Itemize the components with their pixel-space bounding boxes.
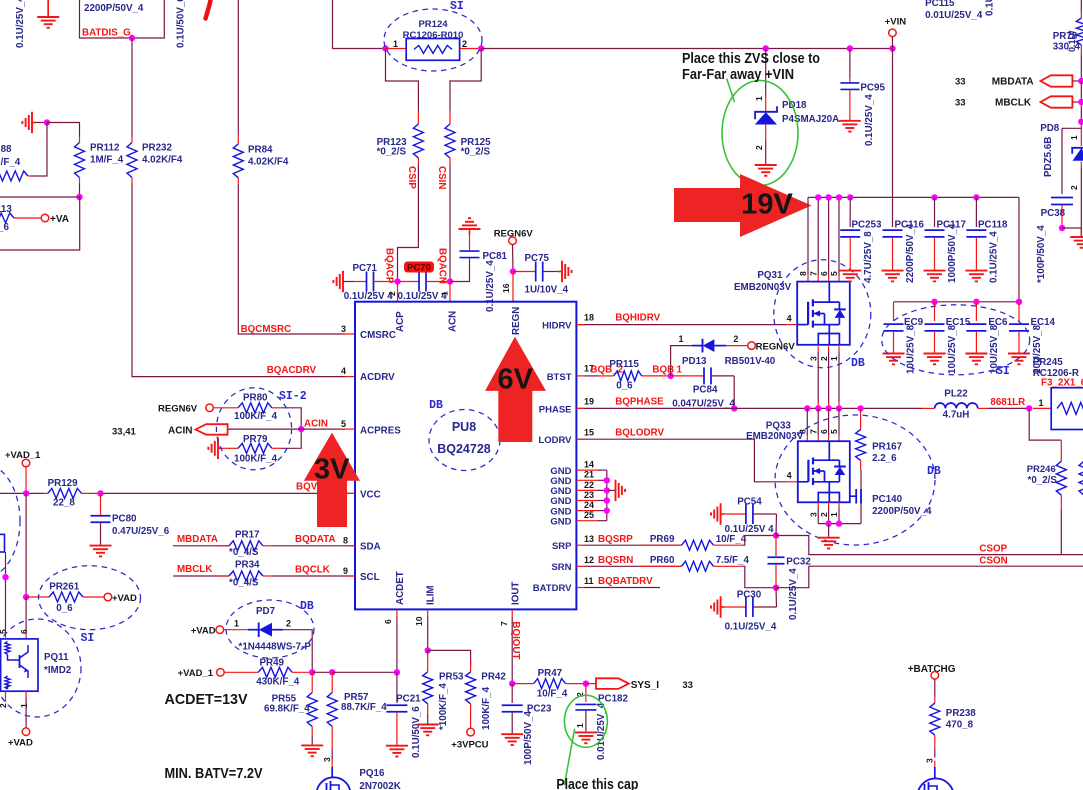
terminal arrow MBDATA [1041,75,1073,86]
svg-text:BQCMSRC: BQCMSRC [241,324,292,335]
svg-text:GND: GND [550,516,571,527]
svg-text:+VAD: +VAD [8,738,33,749]
wire MBDATA [173,545,229,547]
node junction PC84-PHASE [731,405,737,411]
wire PR80 to ACIN node [281,408,301,429]
svg-text:REGN6V: REGN6V [494,229,534,240]
svg-text:BATDIS_G: BATDIS_G [82,28,131,39]
svg-text:25: 25 [584,510,594,520]
svg-text:PC32: PC32 [786,557,811,568]
svg-text:8: 8 [343,536,348,546]
wire PR124 pin1 to CSIP [386,49,419,112]
svg-text:F3_2X1_6: F3_2X1_6 [1041,378,1083,389]
svg-text:10: 10 [414,616,424,626]
svg-text:5: 5 [341,419,346,429]
svg-text:MIN. BATV=7.2V: MIN. BATV=7.2V [165,765,263,782]
resistor PR60 [640,565,682,567]
wire PQ33 source bus [818,523,861,525]
wire ILIM pin10 [427,609,429,617]
svg-text:4.7U/25V_8: 4.7U/25V_8 [863,231,874,283]
svg-text:0.1U/25V_4: 0.1U/25V_4 [989,231,1000,283]
svg-text:BQCLK: BQCLK [295,565,330,576]
svg-text:BATDRV: BATDRV [533,583,572,594]
dashed ellipse around PR261 [39,566,141,630]
resistor PR112 [79,137,81,143]
capacitor PC30 [721,606,725,608]
svg-text:3: 3 [341,324,346,334]
svg-text:*0_2/S: *0_2/S [377,147,407,158]
svg-text:+VAD: +VAD [191,626,216,637]
svg-text:2.2_6: 2.2_6 [872,453,897,464]
dashed ellipse SI around PR124 [384,9,482,71]
wire ACDET pin6 [396,609,398,617]
svg-text:6: 6 [819,429,829,434]
svg-text:1M/F_4: 1M/F_4 [0,157,21,168]
svg-text:PQ31: PQ31 [757,270,783,281]
node junction PR55 [309,669,315,675]
node junction BQACP [394,278,400,284]
svg-text:0_6: 0_6 [56,603,73,614]
wire ILIM to PR42 [428,650,471,666]
capacitor PC54 [721,513,725,515]
svg-text:PDZ5.6B: PDZ5.6B [1043,137,1054,177]
svg-text:PHASE: PHASE [539,404,572,415]
ground PC21 [396,745,398,746]
svg-text:HIDRV: HIDRV [542,321,572,332]
wire BQPHASE pin19 [576,407,922,409]
capacitor PC253 [847,194,853,200]
svg-text:ACN: ACN [448,311,459,332]
svg-text:0.1U: 0.1U [985,0,996,16]
dashed ellipse DB around PU8 [429,410,500,471]
dashed ellipse DB around PQ31 [774,260,871,368]
capacitor PC38 [1062,127,1081,129]
svg-text:33: 33 [955,98,966,109]
svg-text:EMB20N03V: EMB20N03V [734,282,792,293]
svg-text:1: 1 [393,39,398,49]
svg-text:4.7uH: 4.7uH [943,410,970,421]
node junction SYS_I [583,680,589,686]
wire PR112 to box [79,184,81,198]
svg-text:2: 2 [819,512,829,517]
dashed ellipse around PD7 [226,600,314,658]
capacitor EC15 [934,302,936,321]
resistor PR80 [213,407,238,409]
svg-text:MBCLK: MBCLK [995,98,1032,109]
node junction REGN [510,268,516,274]
svg-text:1: 1 [575,723,585,728]
capacitor EC6 [975,302,977,321]
svg-text:9: 9 [343,566,348,576]
green ellipse around PC182 [564,695,607,747]
zener diode PD8 PDZ5.6B [1080,125,1082,146]
svg-text:BQ24728: BQ24728 [437,442,491,456]
svg-text:3: 3 [322,757,332,762]
svg-text:BQBATDRV: BQBATDRV [598,576,653,587]
node junction PR261 [23,594,29,600]
svg-text:PR49: PR49 [260,658,285,669]
IC U-PU8 BQ24728 body [355,302,576,610]
svg-text:23: 23 [584,490,594,500]
svg-text:Place this ZVS close to: Place this ZVS close to [682,51,820,67]
svg-text:1: 1 [679,334,684,344]
svg-text:PQ16: PQ16 [359,768,385,779]
terminal arrow MBCLK [1041,96,1073,107]
svg-text:CSIN: CSIN [436,166,447,189]
resistor PR123 [417,111,419,124]
node junction BQB_1 [667,373,673,379]
svg-text:6: 6 [819,271,829,276]
node junction PC80 [97,490,103,496]
svg-text:BQSRN: BQSRN [598,555,633,566]
wire BQLODRV pin15 [576,439,786,482]
svg-text:1000P/50V_4: 1000P/50V_4 [947,223,958,283]
PQ33 source pins [817,502,819,508]
wire BQSRP pin13 [576,544,584,546]
svg-text:VCC: VCC [360,490,381,501]
svg-text:REGN: REGN [511,307,522,335]
svg-text:Far-Far away +VIN: Far-Far away +VIN [682,67,794,83]
svg-text:PR80: PR80 [243,393,268,404]
capacitor PC116 [892,197,894,227]
resistor PR88 [0,171,28,181]
red arrow 3V [304,433,360,527]
svg-text:PC115: PC115 [925,0,955,9]
wire ACP into IC [397,282,399,302]
wire BQBATDRV pin11 [576,587,584,589]
svg-text:MBDATA: MBDATA [992,77,1034,88]
svg-text:13: 13 [584,534,594,544]
IC GND pins bracket [576,469,598,471]
resistor PR245 RC1206 box [1033,407,1051,409]
wire +VAD_1 down [25,493,27,597]
ground PR55 [311,744,313,745]
svg-text:2: 2 [387,291,397,296]
dashed ellipse left edge [0,464,20,578]
svg-text:22_8: 22_8 [53,498,75,509]
PQ31 drain stubs [807,197,809,275]
svg-text:PR129: PR129 [48,478,79,489]
svg-text:5: 5 [829,429,839,434]
svg-text:3: 3 [808,356,818,361]
node junction PC95 [847,45,853,51]
wire to ACDET node [332,671,397,673]
wire PR17 to SDA [263,545,271,547]
svg-text:4: 4 [787,314,792,324]
svg-text:_6: _6 [0,222,9,233]
svg-text:0.1U/25V_4: 0.1U/25V_4 [788,568,799,620]
node junction PR245 [1026,405,1032,411]
ground top-left [47,0,49,17]
svg-text:*0_2/S: *0_2/S [461,147,491,158]
wire +VAD_1 rail [0,492,44,494]
green ellipse around PD18 [722,81,798,186]
svg-text:PC84: PC84 [693,385,718,396]
svg-text:BTST: BTST [547,372,572,383]
wire into PQ11 pin5 [5,552,7,633]
svg-text:2: 2 [286,619,291,629]
svg-text:PR167: PR167 [872,442,903,453]
capacitor PC23 [511,684,513,703]
svg-text:3: 3 [808,512,818,517]
svg-text:MBDATA: MBDATA [177,534,218,545]
wire ACN into IC [449,282,451,302]
red arrow 19V [674,174,812,237]
wire BATDIS_G to PR232 [131,38,133,137]
svg-text:10/F_4: 10/F_4 [716,534,747,545]
resistor PR78 [1080,0,1082,12]
wire to PR112 [47,123,80,137]
terminal +3VPCU [467,728,475,736]
transistor PQ31 EMB20N03V [797,282,850,345]
svg-text:*1N4448WS-7-P: *1N4448WS-7-P [239,642,312,653]
svg-text:7: 7 [499,621,509,626]
ground PC182 [585,731,587,732]
svg-text:0_6: 0_6 [616,381,633,392]
svg-text:SRN: SRN [551,562,571,573]
green annotation line PC182 [564,729,574,785]
svg-text:33: 33 [682,680,693,691]
svg-text:PC75: PC75 [525,253,550,264]
ground PR53 [427,724,429,725]
resistor PR261 [26,596,49,598]
wire ACIN to ACPRES [229,428,346,430]
svg-text:BQACN: BQACN [437,248,448,284]
svg-text:0.1U/25V_4: 0.1U/25V_4 [15,0,26,48]
svg-text:PR34: PR34 [235,560,260,571]
ground PC80 [100,545,102,546]
svg-text:PC30: PC30 [737,590,762,601]
wire EC bus [894,301,1020,303]
svg-text:88.7K/F_4: 88.7K/F_4 [341,702,387,713]
wire 19V bus [808,196,1019,198]
resistor PR34 [217,575,229,577]
resistor PR232 [131,137,133,143]
svg-text:BQACDRV: BQACDRV [267,365,317,376]
wire PR34 to SCL [263,575,271,577]
svg-text:*0_4/S: *0_4/S [229,578,259,589]
svg-text:6: 6 [19,629,29,634]
svg-text:SCL: SCL [360,572,380,583]
svg-text:100K/F_4: 100K/F_4 [234,411,278,422]
svg-text:7: 7 [808,271,818,276]
svg-text:PC71: PC71 [353,263,378,274]
node junction MBCLK [1078,99,1083,105]
svg-text:PD13: PD13 [682,356,707,367]
wire PD7 to ACDET node [283,630,312,673]
svg-text:ACDET: ACDET [395,571,406,605]
svg-text:0.01U/25V_4: 0.01U/25V_4 [925,10,983,21]
terminal +VAD bottom [22,728,30,736]
svg-text:+VA: +VA [50,214,69,225]
svg-text:0.1U/: 0.1U/ [1067,30,1077,52]
svg-text:PR42: PR42 [481,672,506,683]
ground PC71 left [342,281,345,283]
svg-text:IOUT: IOUT [511,582,522,605]
svg-text:6: 6 [383,619,393,624]
svg-text:PR238: PR238 [946,708,977,719]
svg-text:4.02K/F4: 4.02K/F4 [248,157,289,168]
PQ33 drain stubs [806,408,808,435]
svg-text:PC21: PC21 [396,694,421,705]
node junction left [2,574,8,580]
svg-text:16: 16 [501,283,511,293]
svg-text:ACP: ACP [395,311,406,332]
wire to PR246 [1029,408,1061,440]
svg-text:1: 1 [1039,398,1044,408]
svg-text:*0_4/S: *0_4/S [229,547,259,558]
transistor PQ30 bottom right [917,778,953,790]
ground PR79 [218,447,222,449]
svg-text:100K/F_4: 100K/F_4 [234,454,278,465]
svg-text:PR17: PR17 [235,530,260,541]
resistor PR17 [217,545,229,547]
svg-text:PR115: PR115 [609,359,639,370]
wire 19V corner down to EC bus [1018,197,1020,301]
svg-text:0.1U/25V 4: 0.1U/25V 4 [344,291,394,302]
wire BQACN to PC81 [450,261,470,282]
svg-text:PR124: PR124 [418,19,448,30]
svg-text:24: 24 [584,500,594,510]
capacitor PC81 [469,258,471,261]
wire PR88 to gnd node [31,123,47,177]
ground PC38 [1080,228,1082,237]
PQ31 source pins down to PHASE [817,346,819,352]
wire to CSOP [776,536,1083,555]
svg-text:1: 1 [234,619,239,629]
terminal +VAD right [104,593,112,601]
svg-text:7.5/F_4: 7.5/F_4 [716,555,750,566]
diode PD7 *1N4448WS-7-P [224,629,248,631]
resistor PR79 [222,447,238,449]
wire PR238 to PQ30 [934,748,936,757]
resistor PR49 [224,671,258,673]
wire +BATCHG to PR238 [934,679,936,697]
svg-text:BQDATA: BQDATA [295,534,335,545]
ground GND bracket [607,489,615,491]
svg-text:1M/F_4: 1M/F_4 [90,155,124,166]
capacitor EC9 [893,302,895,321]
capacitor PC140 [850,495,856,497]
svg-text:PQ33: PQ33 [766,421,792,432]
node junction +VAD_1 [23,490,29,496]
resistor PR246 [1060,440,1062,461]
resistor PR124 (RC1206-R010) [386,48,407,50]
node junction ACDET [394,669,400,675]
svg-text:CSOP: CSOP [979,544,1007,555]
svg-text:PR246: PR246 [1027,464,1056,475]
svg-text:18: 18 [584,313,594,323]
svg-text:PR232: PR232 [142,143,173,154]
wire PQ11 pin2 stub [5,691,7,702]
ground PC75 right [558,271,562,273]
wire PR113 to +VA [14,217,41,219]
svg-text:100K/F_4: 100K/F_4 [481,686,492,730]
svg-text:10U/25V_8: 10U/25V_8 [906,324,917,374]
svg-text:0.1U/25V_4: 0.1U/25V_4 [864,94,875,146]
svg-text:470_8: 470_8 [946,720,974,731]
dashed ellipse SI around EC caps [882,305,1030,375]
svg-text:4: 4 [787,471,792,481]
transistor PQ11 *IMD2 [1,639,38,691]
svg-text:PC118: PC118 [978,220,1008,231]
node junction PR124 pin2 [478,45,484,51]
wire PR78 down [1080,55,1082,81]
svg-text:PR53: PR53 [439,672,464,683]
svg-text:PQ11: PQ11 [44,652,69,663]
svg-text:PR261: PR261 [49,582,80,593]
node junction at PR112 gnd [44,119,50,125]
svg-text:DB: DB [927,465,941,478]
svg-text:PC38: PC38 [1041,208,1066,219]
svg-text:1: 1 [829,512,839,517]
svg-text:7: 7 [808,429,818,434]
capacitor PC84 [671,375,704,377]
transistor PQ16 2N7002K [317,777,351,790]
svg-text:RC1206-R010: RC1206-R010 [403,30,464,41]
svg-text:BQLODRV: BQLODRV [615,428,664,439]
ground PC23 [511,733,513,734]
node junction BATDIS_G [129,35,135,41]
svg-text:22: 22 [584,480,594,490]
wire PL22 to PR245 [988,407,1029,409]
svg-text:DB: DB [429,399,443,412]
resistor PR238 [930,703,940,735]
svg-text:SI: SI [450,0,464,13]
ground PC81 (up) [469,229,471,235]
wire BQSRN pin12 [576,565,584,567]
node junction PC32 top [773,532,779,538]
node junction ILIM [425,647,431,653]
svg-text:0.1U/50V_6: 0.1U/50V_6 [411,706,422,758]
svg-text:*100K/F_4: *100K/F_4 [438,683,449,730]
svg-text:2: 2 [0,703,8,708]
resistor PR69 [640,544,682,546]
svg-text:+VAD_1: +VAD_1 [5,450,41,461]
svg-text:LODRV: LODRV [538,435,572,446]
svg-text:2N7002K: 2N7002K [359,781,400,790]
ground PD18 [765,163,767,165]
capacitor PC21 [396,672,398,703]
svg-text:SYS_I: SYS_I [631,680,660,691]
node junctions PHASE bus [804,405,810,411]
svg-text:4.02K/F4: 4.02K/F4 [142,155,183,166]
svg-text:100P/50V_4: 100P/50V_4 [523,711,534,765]
wire PR84 to CMSRC (BQCMSRC) [238,184,345,334]
svg-text:*100P/50V_4: *100P/50V_4 [1036,225,1047,283]
wire CSIP down [398,165,419,282]
svg-text:P4SMAJ20A: P4SMAJ20A [782,114,839,125]
inductor PL22 4.7uH [922,407,935,409]
svg-text:12: 12 [584,555,594,565]
svg-text:2200P/50V_4: 2200P/50V_4 [84,3,144,14]
svg-text:PU8: PU8 [452,420,476,434]
resistor PR84 wire from top [237,0,239,134]
svg-text:11: 11 [584,576,594,586]
svg-text:8681LR: 8681LR [990,397,1025,408]
svg-text:5: 5 [829,271,839,276]
svg-text:ACDET=13V: ACDET=13V [165,691,248,708]
ground left of PR112 [32,122,36,124]
terminal +VIN [889,29,897,37]
svg-text:14: 14 [584,460,594,470]
svg-text:SRP: SRP [552,541,572,552]
node junction ACIN [298,426,304,432]
svg-text:+VAD_1: +VAD_1 [178,668,214,679]
resistor PR129 [44,492,48,494]
wire BQHIDRV pin18 [576,324,786,326]
svg-text:SI: SI [81,632,95,645]
